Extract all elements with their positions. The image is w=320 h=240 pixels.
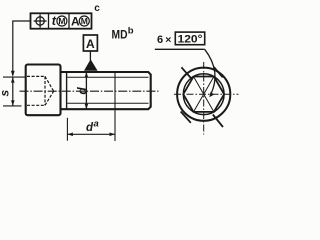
side view centreline	[20, 90, 159, 92]
svg-text:A: A	[71, 14, 80, 28]
dimension da extension line left	[66, 118, 68, 141]
knurl tick bottom-right	[213, 115, 223, 128]
svg-text:MD: MD	[112, 28, 128, 42]
MMC modifier circle on t	[57, 16, 67, 26]
svg-text:d: d	[75, 87, 89, 95]
feature control frame cell divider 2	[68, 13, 70, 28]
feature control frame box	[31, 13, 92, 28]
basic dimension box 120 deg	[175, 32, 204, 45]
under-head junction line	[66, 72, 68, 109]
dimension s line with arrows	[12, 77, 14, 106]
svg-text:s: s	[0, 90, 12, 97]
thread end line / da extension	[114, 72, 116, 141]
svg-text:6: 6	[157, 34, 163, 46]
screw head outline	[26, 65, 61, 116]
MMC modifier circle on datum A	[79, 16, 89, 26]
feature control frame cell divider 1	[48, 13, 50, 28]
svg-text:b: b	[128, 26, 134, 37]
dimension da line with arrows	[67, 133, 115, 135]
hexagon diagonal 60-240	[194, 77, 214, 112]
knurl tick top-left	[181, 67, 191, 78]
curved leader to end view	[205, 49, 215, 95]
svg-text:c: c	[94, 3, 100, 14]
thread minor diameter lines	[67, 76, 148, 78]
knurl tick top-right	[214, 67, 223, 77]
knurl tick bottom-left	[181, 112, 191, 123]
shaft outline	[61, 72, 150, 109]
hexagon diagonal 120-300	[194, 77, 214, 112]
svg-text:a: a	[94, 118, 99, 129]
end view horizontal centreline	[174, 93, 239, 95]
svg-text:120°: 120°	[178, 34, 203, 46]
dimension s extension line top	[3, 76, 26, 78]
position tolerance symbol	[34, 15, 47, 28]
datum filled triangle	[84, 59, 98, 71]
hex socket hexagon	[183, 77, 224, 112]
svg-text:×: ×	[165, 34, 171, 46]
end view chamfer circle	[183, 74, 224, 115]
svg-text:M: M	[81, 16, 88, 26]
datum stem	[89, 51, 91, 61]
end view outer circle	[177, 68, 230, 121]
hidden hex socket flats	[27, 76, 54, 105]
dimension s extension line bottom	[3, 105, 22, 107]
svg-text:M: M	[58, 16, 65, 26]
datum feature symbol A box	[83, 35, 97, 51]
dimension d line with arrows	[85, 72, 87, 109]
reference underline	[155, 48, 205, 50]
end view vertical centreline	[203, 62, 205, 135]
svg-text:A: A	[86, 37, 95, 51]
leader from frame to s dimension	[13, 21, 31, 72]
